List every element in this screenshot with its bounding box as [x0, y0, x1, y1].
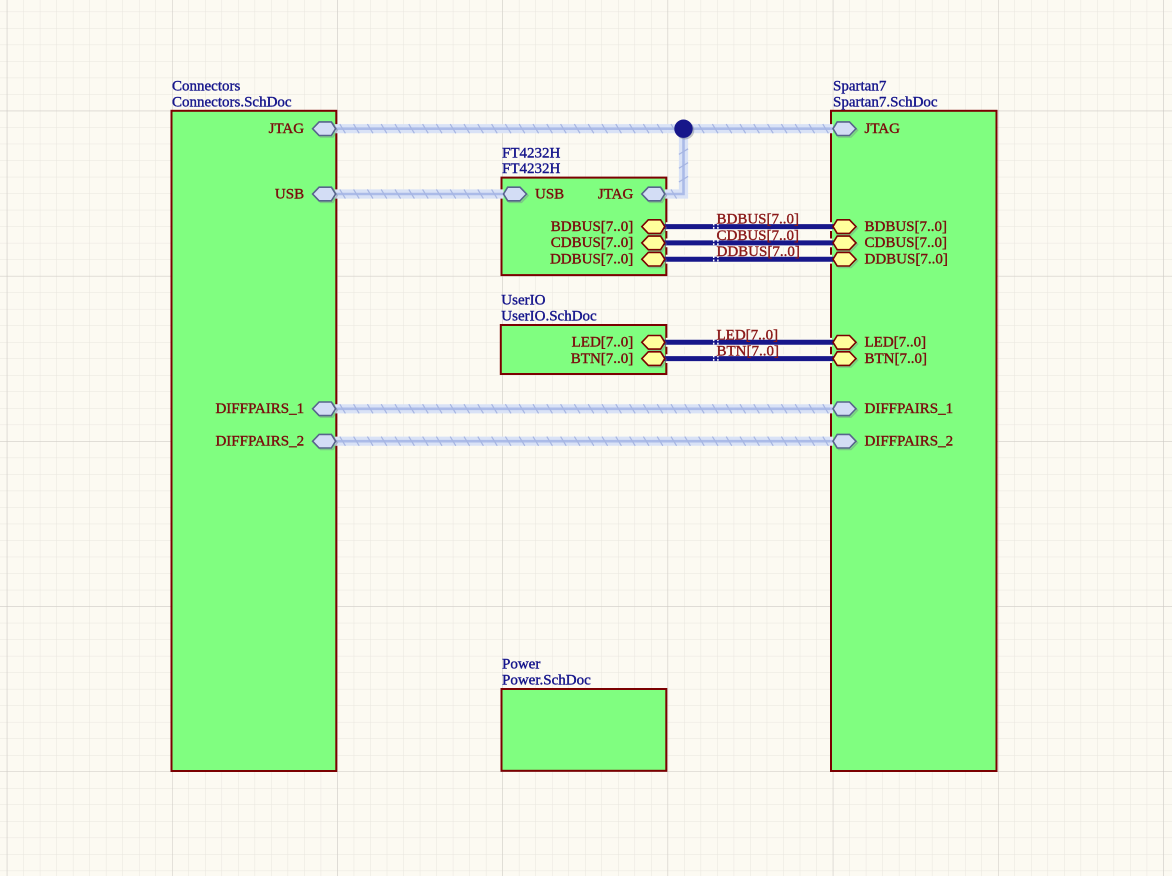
- sheet entry Spartan7.DDBUS: [833, 252, 948, 268]
- svg-text:Power.SchDoc: Power.SchDoc: [502, 673, 591, 689]
- sheet symbol UserIO: [501, 325, 667, 374]
- bus wire CDBUS[7..0]: [665, 238, 833, 247]
- svg-text:BDBUS[7..0]: BDBUS[7..0]: [865, 219, 948, 235]
- bus wire DDBUS[7..0]: [665, 255, 833, 264]
- bus wire BTN[7..0]: [665, 354, 833, 363]
- sheet entry FT4232H.BDBUS: [551, 219, 667, 235]
- sheet entry Spartan7.LED: [833, 335, 926, 351]
- svg-text:FT4232H: FT4232H: [502, 145, 561, 161]
- svg-text:LED[7..0]: LED[7..0]: [717, 327, 779, 343]
- svg-text:JTAG: JTAG: [269, 121, 305, 137]
- sheet entry Connectors.JTAG: [269, 121, 337, 137]
- svg-text:DIFFPAIRS_2: DIFFPAIRS_2: [865, 434, 954, 450]
- sheet symbol FT4232H: [502, 178, 667, 276]
- sheet entry FT4232H.CDBUS: [551, 235, 667, 251]
- junction on JTAG harness: [674, 120, 694, 140]
- svg-text:Power: Power: [502, 657, 540, 673]
- svg-text:LED[7..0]: LED[7..0]: [572, 335, 634, 351]
- net label LED[7..0]: [714, 327, 778, 346]
- svg-text:BTN[7..0]: BTN[7..0]: [865, 351, 928, 367]
- svg-text:USB: USB: [275, 186, 304, 202]
- sheet entry Connectors.DIFFPAIRS_2: [215, 434, 337, 450]
- net label CDBUS[7..0]: [714, 228, 799, 247]
- bus wire BDBUS[7..0]: [665, 222, 833, 231]
- svg-text:JTAG: JTAG: [865, 121, 901, 137]
- svg-text:Connectors.SchDoc: Connectors.SchDoc: [172, 94, 292, 110]
- harness wire DIFFPAIRS_1: [335, 404, 833, 413]
- svg-text:Connectors: Connectors: [172, 79, 240, 95]
- svg-text:CDBUS[7..0]: CDBUS[7..0]: [865, 235, 948, 251]
- sheet entry FT4232H.JTAG: [598, 186, 666, 202]
- sheet entry Spartan7.DIFFPAIRS_1: [833, 401, 953, 417]
- sheet entry Spartan7.CDBUS: [833, 235, 947, 251]
- bus wire LED[7..0]: [665, 338, 833, 347]
- svg-text:USB: USB: [535, 186, 564, 202]
- net label DDBUS[7..0]: [714, 244, 800, 263]
- sheet symbol Spartan7: [831, 111, 997, 771]
- sheet entry Connectors.USB: [275, 186, 337, 202]
- svg-text:DIFFPAIRS_1: DIFFPAIRS_1: [215, 401, 304, 417]
- sheet entry Connectors.DIFFPAIRS_1: [215, 401, 337, 417]
- harness wire JTAG: [335, 124, 833, 133]
- sheet entry FT4232H.DDBUS: [550, 252, 666, 268]
- svg-text:BTN[7..0]: BTN[7..0]: [571, 351, 634, 367]
- svg-text:BTN[7..0]: BTN[7..0]: [717, 344, 780, 360]
- sheet symbol Power: [502, 689, 667, 771]
- sheet entry UserIO.BTN: [571, 351, 667, 367]
- svg-text:DIFFPAIRS_1: DIFFPAIRS_1: [865, 401, 954, 417]
- harness wire DIFFPAIRS_2: [335, 437, 833, 446]
- sheet entry Spartan7.BDBUS: [833, 219, 947, 235]
- svg-text:DIFFPAIRS_2: DIFFPAIRS_2: [215, 434, 304, 450]
- svg-text:DDBUS[7..0]: DDBUS[7..0]: [865, 252, 948, 268]
- sheet entry FT4232H.USB: [504, 186, 565, 202]
- svg-text:UserIO: UserIO: [501, 293, 545, 309]
- svg-text:DDBUS[7..0]: DDBUS[7..0]: [550, 252, 633, 268]
- svg-text:Spartan7.SchDoc: Spartan7.SchDoc: [833, 94, 938, 110]
- svg-text:LED[7..0]: LED[7..0]: [865, 335, 927, 351]
- harness wire JTAG branch to FT4232H: [665, 129, 688, 199]
- svg-text:JTAG: JTAG: [598, 186, 634, 202]
- svg-text:BDBUS[7..0]: BDBUS[7..0]: [551, 219, 634, 235]
- net label BDBUS[7..0]: [714, 212, 799, 231]
- svg-text:DDBUS[7..0]: DDBUS[7..0]: [717, 244, 800, 260]
- svg-text:CDBUS[7..0]: CDBUS[7..0]: [551, 235, 634, 251]
- sheet entry Spartan7.DIFFPAIRS_2: [833, 434, 953, 450]
- sheet entry UserIO.LED: [572, 335, 667, 351]
- svg-text:Spartan7: Spartan7: [833, 79, 887, 95]
- svg-text:BDBUS[7..0]: BDBUS[7..0]: [717, 212, 800, 228]
- sheet entry Spartan7.BTN: [833, 351, 927, 367]
- svg-text:CDBUS[7..0]: CDBUS[7..0]: [717, 228, 800, 244]
- net label BTN[7..0]: [714, 344, 779, 363]
- svg-text:UserIO.SchDoc: UserIO.SchDoc: [501, 309, 597, 325]
- svg-text:FT4232H: FT4232H: [502, 161, 561, 177]
- sheet entry Spartan7.JTAG: [833, 121, 900, 137]
- harness wire USB: [335, 189, 504, 198]
- sheet symbol Connectors: [172, 111, 337, 771]
